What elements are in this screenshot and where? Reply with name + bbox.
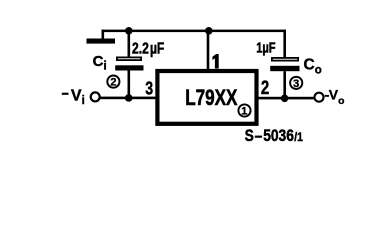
node output junction [281, 95, 289, 103]
output terminal [315, 93, 324, 102]
svg-text:S–5036/1: S–5036/1 [245, 127, 303, 145]
pin circled 3 [290, 77, 302, 89]
wire from Co down to output line [283, 71, 286, 98]
wire pin 1 from rail to box [207, 31, 210, 71]
pin circled 1 inside box [238, 104, 250, 116]
capacitor C1 bottom plate [115, 65, 143, 70]
wire ground drop [102, 30, 105, 39]
svg-text:1: 1 [241, 106, 247, 118]
pin number 1 [212, 54, 218, 69]
node junction on rail above Ci [125, 27, 133, 35]
wire top rail [102, 30, 286, 32]
wire from rail down to Ci [128, 31, 131, 58]
svg-text:2: 2 [261, 78, 269, 99]
wire from Ci down to input line [128, 71, 131, 98]
wire output line [257, 97, 315, 100]
pin circled 2 [107, 76, 119, 88]
label -Vi input [62, 93, 69, 95]
svg-text:1µF: 1µF [256, 40, 276, 56]
node input junction [125, 94, 133, 102]
capacitor Co bottom plate [270, 66, 299, 71]
op box U1 L79XX regulator [157, 71, 256, 124]
wire rail corner down to Co [283, 30, 286, 58]
capacitor Co top plate [272, 58, 298, 61]
input terminal [91, 92, 100, 101]
label -Vo output [325, 95, 329, 97]
svg-text:2: 2 [110, 77, 116, 89]
svg-text:L79XX: L79XX [185, 85, 237, 110]
ground [87, 39, 116, 44]
wire input line [101, 97, 158, 100]
svg-text:3: 3 [293, 78, 299, 90]
svg-text:3: 3 [145, 78, 153, 99]
svg-text:2.2µF: 2.2µF [132, 41, 164, 58]
node junction on rail above pin 1 [205, 27, 213, 35]
capacitor C1 top plate [117, 57, 141, 60]
